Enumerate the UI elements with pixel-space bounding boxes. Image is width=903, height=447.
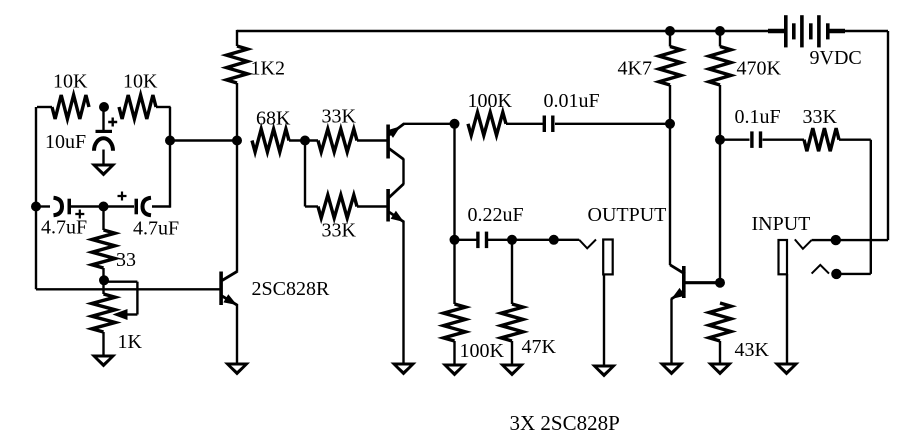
node bridge right (165, 136, 175, 146)
wire output jack sleeve to ground (603, 274, 605, 364)
label OUTPUT (588, 204, 667, 226)
transistor Q3 2SC828R base bar (219, 272, 223, 306)
resistor R7 33 ohm (92, 230, 115, 268)
wire V11 node down to Q4 base node (719, 140, 721, 283)
label 3X 2SC828P (510, 411, 620, 435)
ground (10uF) (91, 164, 117, 177)
transistor Q4 base bar (mirrored) (682, 266, 686, 298)
wire right edge from battery down to input tip (887, 31, 889, 240)
wire V5 node down to lower 33K (304, 141, 306, 207)
wire oscillator top row (36, 107, 52, 289)
capacitor C1 polarity plus (108, 118, 117, 127)
wire 33K to ring branch corner (839, 138, 871, 140)
wire 4.7uF cap1 to center node (71, 205, 104, 207)
wire 10K junction to second 10K (156, 106, 171, 108)
output jack body (603, 240, 613, 275)
ground (output jack) (591, 365, 617, 378)
wire 47K node to output contact node (512, 239, 554, 241)
label 0.01uF (544, 90, 600, 112)
output jack tip contact (579, 240, 596, 249)
wire Q4 emitter to ground (670, 299, 672, 364)
wire ring branch down (870, 140, 872, 274)
wire 0.01uF to 4K7 node (555, 123, 670, 125)
svg-text:10K: 10K (123, 71, 158, 93)
potentiometer R8 1K (92, 294, 115, 332)
wire Q3 collector riser (236, 271, 238, 274)
wire 0.1uF to 33K (763, 138, 805, 140)
capacitor C2 4.7uF curved plate (54, 198, 63, 216)
capacitor C6 0.1uF (750, 131, 762, 148)
capacitor C1 10uF electrolytic plate (96, 108, 113, 133)
label 10K right (123, 71, 158, 93)
wire input tip row (812, 239, 888, 241)
resistor R11 47K (501, 304, 523, 341)
label 33 (116, 249, 136, 271)
wire V8 47K branch (511, 240, 513, 304)
wire 0.1uF row left stub (720, 138, 750, 140)
svg-text:9VDC: 9VDC (810, 47, 862, 69)
label 100K top (468, 90, 513, 112)
wire wiper node to 1K pot (102, 280, 104, 294)
node 1K2/68K (232, 136, 242, 146)
resistor R10 100K (vertical) (444, 304, 466, 341)
node Q1 emitter/100K (450, 119, 460, 129)
wire Q2 emitter to ground (402, 221, 404, 364)
wire 33K to Q1 base (357, 139, 387, 141)
node 68K/33K (300, 136, 310, 146)
ground (47K) (499, 364, 525, 377)
label 33K lower (322, 220, 357, 242)
node 0.22uF/47K (507, 235, 517, 245)
wire Q3 base line (36, 288, 220, 290)
label 1K2 (251, 58, 285, 80)
wire 4.7uF row left stub (36, 205, 50, 207)
battery BT1 9VDC (784, 15, 830, 47)
node input ring (831, 269, 841, 279)
svg-text:33K: 33K (322, 220, 357, 242)
ground (1K pot) (91, 355, 117, 368)
resistor R12 4K7 (659, 47, 681, 86)
label 4K7 (618, 58, 652, 80)
node osc divider (99, 102, 109, 112)
svg-text:33K: 33K (322, 106, 357, 128)
label 0.22uF (468, 204, 524, 226)
wire battery positive stub (768, 29, 787, 34)
resistor R9 100K (feedback) (468, 112, 506, 135)
label 68K (256, 108, 291, 130)
label 1K (118, 331, 143, 353)
wire pot wiper tap (104, 282, 137, 315)
transistor Q3 emitter (arrow down) (222, 294, 237, 305)
svg-text:33K: 33K (803, 106, 838, 128)
svg-text:68K: 68K (256, 108, 291, 130)
svg-text:10K: 10K (53, 71, 88, 93)
wire 100K to 0.01uF (506, 123, 543, 125)
node 0.22uF left (450, 235, 460, 245)
resistor R13 470K (709, 47, 731, 86)
wire V4 node down to Q3 collector (236, 141, 238, 272)
wire bridge output to 1K2 node (170, 139, 237, 141)
svg-text:1K: 1K (118, 331, 143, 353)
transistor Q4 collector (670, 265, 685, 274)
node 0.01uF/4K7 (665, 119, 675, 129)
label 4.7uF left (41, 217, 87, 239)
label 2SC828R (252, 278, 330, 300)
transistor Q3 collector (222, 272, 237, 281)
wire V3 right branch of bridge (169, 107, 171, 207)
capacitor C2 4.7uF flat plate (68, 199, 72, 215)
ground (100K) (442, 364, 468, 377)
label 100K bottom (460, 340, 505, 362)
svg-text:INPUT: INPUT (752, 213, 811, 235)
svg-text:100K: 100K (468, 90, 513, 112)
wire V7 node down to 0.22uF row (453, 124, 455, 240)
wire lower 33K row left stub (305, 205, 318, 207)
wire 470K rail drop (719, 31, 721, 47)
node Q4 base/43K (715, 278, 725, 288)
transistor Q1 base bar (386, 125, 390, 159)
svg-text:100K: 100K (460, 340, 505, 362)
svg-text:47K: 47K (522, 336, 557, 358)
capacitor C2 polarity plus (75, 210, 84, 219)
wire Q1-Q2 collector link (402, 159, 404, 185)
resistor R4 68K (252, 129, 289, 152)
label 470K (737, 58, 782, 80)
wire V4 1K2 to 68K node (236, 83, 238, 141)
wire center node to 4.7uF cap2 (104, 205, 135, 207)
transistor Q4 emitter (arrow down-left) (671, 288, 685, 299)
node 4.7uF center (99, 202, 109, 212)
capacitor C4 0.01uF (543, 116, 555, 133)
svg-text:10uF: 10uF (45, 131, 86, 153)
svg-text:1K2: 1K2 (251, 58, 285, 80)
wire 4K7 to 0.01uF node (669, 85, 671, 124)
capacitor C1 10uF curved plate (94, 138, 113, 151)
svg-text:3X 2SC828P: 3X 2SC828P (510, 411, 620, 435)
resistor R1 10K (left) (52, 95, 89, 119)
svg-text:2SC828R: 2SC828R (252, 278, 330, 300)
label 33K upper (322, 106, 357, 128)
transistor Q2 emitter (arrow down) (389, 211, 404, 222)
node output branch (549, 235, 559, 245)
wire 1K pot to ground (102, 332, 104, 355)
label 10uF (45, 131, 86, 153)
wire 47K vert to ground (511, 341, 513, 364)
wire 0.22uF to 47K node (488, 239, 512, 241)
wire battery negative stub (827, 29, 845, 34)
wire ring branch to ring contact (836, 273, 870, 275)
ground (input jack) (774, 363, 800, 376)
wire 0.22uF left lead (455, 239, 477, 241)
wire Q3 emitter to ground (236, 304, 238, 364)
transistor Q2 collector (389, 184, 404, 198)
wire top supply rail (237, 30, 888, 32)
resistor R6 33K (lower) (318, 195, 357, 218)
label 47K (522, 336, 557, 358)
wire 1K2 branch: top rail corner down (236, 30, 238, 46)
svg-text:0.01uF: 0.01uF (544, 90, 600, 112)
input jack body (779, 240, 788, 274)
wire 43K to ground (719, 341, 721, 364)
label 10K left (53, 71, 88, 93)
capacitor C5 0.22uF (476, 232, 488, 249)
svg-text:0.22uF: 0.22uF (468, 204, 524, 226)
svg-text:470K: 470K (737, 58, 782, 80)
svg-text:4.7uF: 4.7uF (41, 217, 87, 239)
wire V7 0.22uF row down to 100K vert (453, 240, 455, 304)
wire 4.7uF cap2 to right branch (152, 207, 171, 208)
wire Q1 emitter row to 100K node (403, 123, 455, 125)
input jack ring contact (812, 265, 829, 274)
node rail 470K (715, 26, 725, 36)
svg-text:0.1uF: 0.1uF (735, 106, 781, 128)
label 33K input (803, 106, 838, 128)
wire 10uF to ground (102, 150, 104, 164)
label 4.7uF right (133, 218, 179, 240)
label 9VDC (810, 47, 862, 69)
ground (43K) (707, 363, 733, 376)
transistor Q1 collector (389, 149, 404, 160)
wire output node to jack contact (554, 239, 579, 241)
wire 4K7 rail drop (669, 31, 671, 47)
capacitor C3 4.7uF flat plate (135, 199, 139, 215)
wire 470K to 0.1uF node (719, 85, 721, 140)
resistor R2 10K (right) (119, 95, 156, 119)
input jack tip contact (795, 239, 812, 248)
capacitor C3 4.7uF curved plate (143, 198, 152, 216)
node input tip (831, 235, 841, 245)
node rail 4K7 (665, 26, 675, 36)
node 470K/0.1uF (715, 135, 725, 145)
wire 100K vert to ground (453, 341, 455, 364)
capacitor C3 polarity plus (118, 192, 127, 201)
svg-text:33: 33 (116, 249, 136, 271)
ground (Q2 emitter) (391, 363, 417, 376)
resistor R15 33K (input) (804, 128, 839, 151)
wire V10 node down to Q4 collector (669, 124, 671, 265)
label 43K (735, 339, 770, 361)
ground (Q4 emitter) (659, 363, 685, 376)
resistor R3 1K2 (227, 46, 248, 83)
svg-text:4K7: 4K7 (618, 58, 652, 80)
svg-text:OUTPUT: OUTPUT (588, 204, 667, 226)
svg-text:43K: 43K (735, 339, 770, 361)
transistor Q2 base bar (386, 189, 390, 222)
wire 33 resistor top stub (102, 207, 104, 231)
wire input jack sleeve to ground (786, 274, 788, 363)
svg-text:4.7uF: 4.7uF (133, 218, 179, 240)
ground (Q3 emitter) (224, 363, 250, 376)
wire 68K to 33K node (289, 139, 318, 141)
wire lower 33K to Q2 base (357, 205, 387, 207)
node wiper (99, 275, 109, 285)
wire 33 resistor to wiper node (102, 268, 104, 280)
label INPUT (752, 213, 811, 235)
label 0.1uF (735, 106, 781, 128)
node left feedback (31, 202, 41, 212)
resistor R5 33K (upper) (318, 129, 357, 152)
transistor Q1 emitter (arrow up) (387, 124, 404, 138)
resistor R14 43K (709, 303, 731, 341)
potentiometer wiper arrow (113, 309, 128, 320)
wire Q4 base link (686, 281, 721, 284)
